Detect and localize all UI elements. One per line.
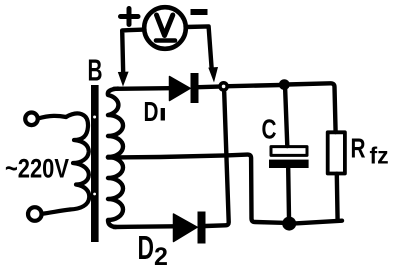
svg-text:D: D	[138, 229, 155, 266]
diode D1	[170, 77, 191, 101]
svg-text:fz: fz	[370, 143, 389, 169]
wire (D1 cathode to junction)	[199, 84, 220, 89]
svg-text:D: D	[144, 96, 159, 127]
svg-text:~220V: ~220V	[5, 154, 69, 184]
capacitor C	[285, 85, 287, 146]
transformer core B	[91, 85, 99, 242]
diode D2	[174, 214, 198, 242]
svg-text:2: 2	[154, 243, 168, 271]
svg-text:C: C	[262, 114, 277, 145]
wire (voltmeter right lead with arrow)	[186, 26, 212, 68]
node (C top junction dot)	[279, 79, 290, 90]
wire (D2 cathode to corner, up to D1 junction)	[206, 92, 229, 226]
terminal (AC input, bottom)	[28, 207, 42, 221]
transformer secondary winding (lower half)	[108, 157, 123, 227]
wire (bottom dot to Rfz bottom corner)	[295, 221, 342, 224]
wire (center tap to right, crossing, down, to bottom rail)	[108, 155, 283, 223]
terminal (AC input, top)	[25, 113, 38, 126]
label -	[191, 9, 208, 15]
label +	[121, 9, 139, 25]
wire (secondary bottom to D2 anode)	[114, 224, 174, 229]
wire (voltmeter left lead with arrow)	[122, 30, 144, 74]
wire (secondary top to D1 anode)	[114, 86, 170, 91]
resistor Rfz	[328, 132, 345, 173]
node (D1 cathode junction circle)	[218, 81, 229, 92]
transformer primary winding	[66, 113, 89, 209]
wire (bottom terminal to primary)	[42, 210, 70, 214]
node (C bottom junction dot)	[282, 217, 296, 231]
transformer secondary winding (upper half)	[108, 89, 123, 157]
wire (C node to top-right corner, down to Rfz)	[287, 83, 336, 132]
wire (top terminal to primary)	[38, 116, 66, 119]
svg-text:R: R	[351, 133, 366, 164]
wire (junction to C node)	[229, 85, 281, 86]
svg-text:B: B	[88, 53, 103, 88]
voltmeter U1	[144, 7, 186, 49]
